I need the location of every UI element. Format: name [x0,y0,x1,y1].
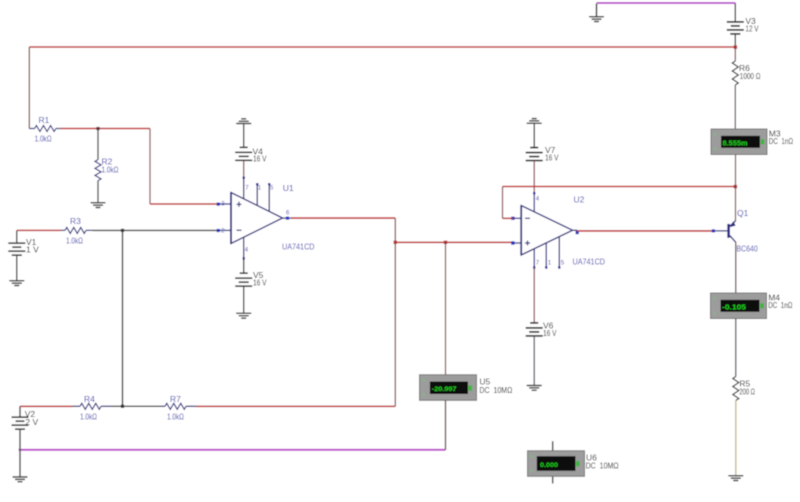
wire V7 to U2 pin4 [533,161,535,193]
wire V6 bottom lead [533,336,535,386]
node junction R1 R2 [96,127,99,130]
resistor R5 200 ohm [733,377,755,401]
wire R4 to junction [112,405,123,407]
wire V2 to R4 [20,405,73,407]
wire vertical x150 to U1 plus input [149,129,151,205]
wire left vertical down to R1 [28,47,30,129]
node junction V3 R6 [734,45,737,48]
svg-text:-0.105: -0.105 [722,303,746,312]
op-amp U2 UA741CD [521,195,605,267]
battery V2 2V [12,406,39,429]
svg-text:U1: U1 [283,183,294,193]
resistor R2 1.0k [95,157,119,181]
node junction x395 y242 [394,241,397,244]
svg-text:R1: R1 [39,115,50,125]
node junction R3 column [121,229,124,232]
pin 7 U2 [533,249,540,269]
svg-text:DC 10MΩ: DC 10MΩ [479,385,512,395]
svg-text:16 V: 16 V [543,328,557,338]
wire V1 to R3 [17,229,61,231]
multimeter M3 ammeter [711,129,793,155]
wire V1 bottom lead [16,255,18,281]
ground inverted above V7 [527,119,542,148]
pin 7 U1 [243,177,250,200]
svg-text:DC 10MΩ: DC 10MΩ [586,461,619,471]
resistor R3 1.0k [61,216,93,246]
wire Q1 collector to M4 [735,242,737,293]
svg-text:Q1: Q1 [737,208,749,218]
wire U2 output to Q1 base [577,230,713,232]
pin 6 U2 output stub [573,230,579,234]
wire top purple net V3 plus to ground [597,2,736,4]
wire U2 pin7 to V6 [533,268,535,323]
wire long top red net [29,46,735,48]
wire to U1 plus input [150,203,218,205]
pin plus U2 stub [511,241,521,244]
battery V6 16V [526,321,557,338]
battery V1 1V [8,230,39,255]
pin 1 U2 [545,243,552,269]
svg-text:R3: R3 [70,216,81,226]
battery V4 16V [235,147,267,164]
wire bottom purple net U5 minus [19,449,446,451]
pin 5 U1 [268,183,274,211]
wire R2 top lead [97,129,99,160]
wire R2 bottom lead [97,181,99,203]
ground top middle [589,4,604,22]
wire node to Q1 emitter [735,187,737,221]
wire feedback to Q1 node [503,186,736,188]
svg-text:DC 1nΩ: DC 1nΩ [769,136,793,146]
wire M4 to R5 [735,319,737,377]
wire U5 bottom lead [445,400,447,450]
node junction feedback right [734,185,737,188]
svg-text:DC 1nΩ: DC 1nΩ [768,300,792,310]
svg-text:UA741CD: UA741CD [573,257,606,267]
pin 6 U1 output stub [283,211,292,220]
pin 1 U1 [256,183,262,206]
resistor R1 1.0k [29,115,60,144]
wire V4 to U1 pin7 [243,160,245,177]
transistor Q1 BC640 [712,208,758,254]
node junction x445 y242 [444,241,447,244]
voltmeter U5 [420,375,513,401]
pin 4 U1 [243,237,249,259]
pin 5 U2 [558,237,565,269]
ground bottom right [728,476,743,481]
wire junction to R7 [123,405,162,407]
pin 2 U1 stub [217,228,231,234]
wire R1 to corner x150 [61,128,151,130]
resistor R4 1.0k [73,394,113,422]
wire vertical x395 [394,218,396,406]
svg-text:0.000: 0.000 [540,462,558,469]
svg-text:R4: R4 [84,394,95,404]
wire U2 feedback vertical [502,187,504,219]
op-amp U1 UA741CD [231,183,315,252]
svg-text:1 V: 1 V [26,245,39,255]
svg-text:200 Ω: 200 Ω [739,387,755,397]
ground R2 [91,203,106,208]
svg-text:12 V: 12 V [745,24,758,34]
battery V7 16V [526,145,559,163]
wire middle vertical column [122,230,124,406]
svg-text:1.0kΩ: 1.0kΩ [167,412,184,422]
node junction R4 R7 [121,405,124,408]
svg-text:16 V: 16 V [253,277,267,287]
svg-text:1.0kΩ: 1.0kΩ [80,412,97,422]
wire R6 to M3 [734,85,736,129]
ground V1 [9,281,24,286]
wire U2 feedback left [503,217,513,219]
wire junction to R6 [734,47,736,61]
battery V3 12V [727,16,759,34]
resistor R6 1000 ohm [732,61,760,85]
svg-text:UA741CD: UA741CD [282,242,315,252]
wire U1 pin4 to V5 [243,259,245,274]
wire R5 to ground khaki [735,401,737,476]
wire R7 right red [196,405,395,407]
multimeter M4 ammeter [711,293,793,319]
wire V3 top lead [734,3,736,22]
ground inverted above V4 [236,119,251,147]
wire V3 bottom lead [734,34,736,47]
ground V2 [13,477,28,482]
svg-text:8.555m: 8.555m [723,139,748,148]
svg-text:-20.997: -20.997 [432,386,457,393]
wire V2 bottom lead [19,429,21,477]
svg-text:1.0kΩ: 1.0kΩ [35,134,52,144]
wire R3 to U1 minus input [93,229,219,231]
voltmeter U6 [528,441,619,483]
wire x445 down to U5 [445,242,447,375]
svg-text:16 V: 16 V [253,154,267,164]
pin 4 U2 [533,192,540,212]
wire y242 to U2 plus [395,241,512,243]
svg-text:1.0kΩ: 1.0kΩ [66,236,83,246]
resistor R7 1.0k [161,394,196,422]
svg-text:U2: U2 [574,195,585,205]
pin 3 U1 stub [217,201,231,207]
svg-text:1000 Ω: 1000 Ω [740,71,761,81]
svg-text:16 V: 16 V [545,152,559,162]
svg-text:2 V: 2 V [25,417,38,427]
ground V5 [236,313,251,318]
wire V5 bottom lead [243,286,245,313]
svg-text:R7: R7 [170,394,181,404]
ground V6 [527,386,542,391]
pin minus U2 stub [511,217,521,220]
svg-text:BC640: BC640 [737,244,759,254]
wire M3 to node [735,155,737,187]
wire U1 output right [291,217,395,219]
battery V5 16V [235,270,267,287]
svg-text:1.0kΩ: 1.0kΩ [102,165,119,175]
